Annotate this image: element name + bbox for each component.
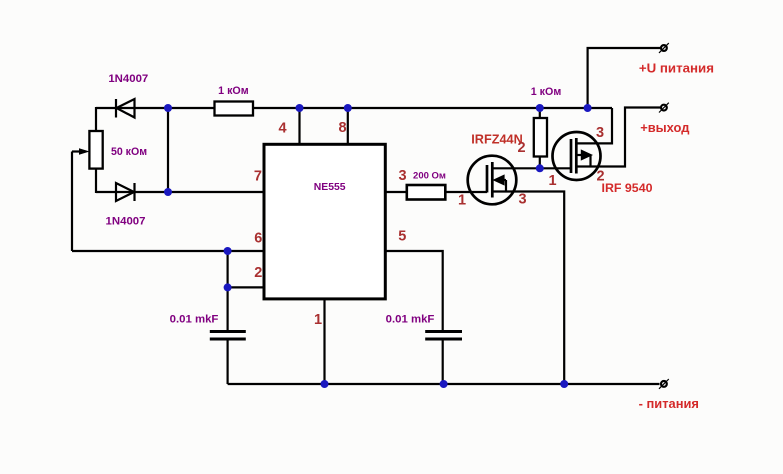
svg-text:0.01 mkF: 0.01 mkF [170,314,219,326]
svg-text:2: 2 [254,265,262,281]
svg-text:1 кОм: 1 кОм [531,86,562,98]
svg-text:6: 6 [254,230,262,246]
svg-text:5: 5 [398,228,406,244]
svg-text:IRFZ44N: IRFZ44N [471,133,522,147]
svg-text:- питания: - питания [639,396,699,411]
svg-text:3: 3 [518,192,526,208]
svg-text:1N4007: 1N4007 [108,73,148,85]
svg-text:1: 1 [314,312,322,328]
svg-text:+выход: +выход [640,120,689,135]
svg-text:1 кОм: 1 кОм [218,85,249,97]
svg-text:NE555: NE555 [314,182,346,193]
svg-text:200 Ом: 200 Ом [413,171,446,182]
svg-text:2: 2 [517,140,525,156]
svg-text:1: 1 [548,173,556,189]
svg-text:0.01 mkF: 0.01 mkF [386,314,435,326]
svg-text:1: 1 [458,193,466,209]
svg-text:7: 7 [254,169,262,185]
svg-text:+U питания: +U питания [639,61,714,76]
svg-text:IRF 9540: IRF 9540 [602,181,653,195]
svg-text:3: 3 [399,168,407,184]
svg-text:4: 4 [278,121,286,137]
svg-text:1N4007: 1N4007 [106,216,146,228]
svg-text:3: 3 [596,125,604,141]
svg-text:50 кОм: 50 кОм [111,146,147,158]
svg-text:8: 8 [338,120,346,136]
svg-text:2: 2 [596,169,604,185]
